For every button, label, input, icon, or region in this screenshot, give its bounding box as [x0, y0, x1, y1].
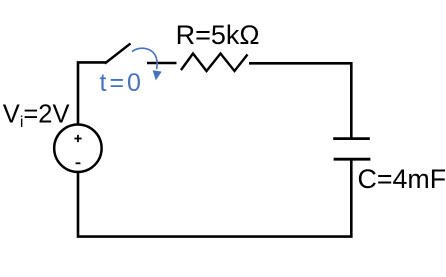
svg-text:Vi=2V: Vi=2V	[3, 100, 70, 131]
svg-text:C=4mF: C=4mF	[358, 164, 446, 194]
svg-text:R=5kΩ: R=5kΩ	[176, 20, 260, 50]
svg-text:t=0: t=0	[100, 69, 144, 97]
